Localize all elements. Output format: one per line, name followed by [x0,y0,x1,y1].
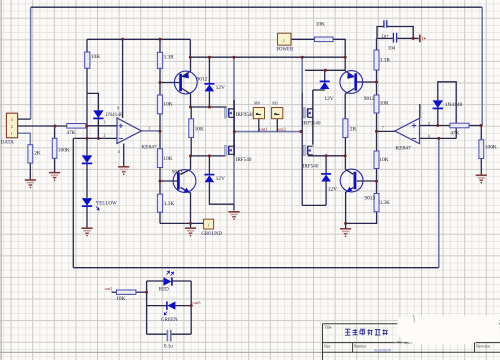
wire op-amp U1 pin2 input [73,137,117,139]
wire left center rail [233,57,235,205]
svg-text:3.3K: 3.3K [379,200,390,206]
diode YELLOW arrows [96,207,99,211]
wire POWER feed [291,38,315,40]
wire pmos gate link y107 [191,106,227,108]
wire left drain rail [233,100,235,156]
wire right center rail upper [301,57,303,93]
svg-text:5: 5 [428,121,430,126]
resistor 100K left [52,138,70,158]
wire 9013 left base [160,180,177,182]
wire 9013 left emitter [181,188,191,224]
zener D3 12V [320,81,334,102]
capacitor 1u+ [381,20,389,39]
ground 9013 right [340,229,351,237]
wire 9013 left collector [181,156,191,175]
svg-text:GREEN: GREEN [161,318,178,323]
zener D2 12V [204,175,225,183]
svg-text:10K: 10K [91,54,100,60]
wire right y90 link [313,89,325,91]
svg-text:1: 1 [11,132,13,136]
svg-text:12V: 12V [216,176,225,182]
wire 9013 right emitter [346,188,354,224]
wire nmos right source run [308,155,345,157]
svg-text:1u+: 1u+ [381,35,389,40]
title text (chinese) [345,329,388,335]
svg-text:IRF9540: IRF9540 [236,112,255,118]
svg-text:10K: 10K [195,127,204,133]
svg-text:0.1u: 0.1u [164,345,173,350]
wire 1N4148 branch [87,93,98,110]
capacitor 104 [388,33,397,52]
ground 2K [25,180,36,188]
wire right ladder seg2 [376,113,378,151]
led GREEN [161,301,178,323]
wire corner x190 to y57 [189,39,191,57]
svg-text:3: 3 [103,120,105,125]
wire 10K power to corner [333,39,345,70]
svg-text:10K: 10K [379,157,388,163]
wire big loop left [72,138,74,267]
svg-text:IRF540: IRF540 [236,157,252,163]
wire out1 resistor stub [112,291,117,293]
wire diode column low [86,206,88,228]
svg-text:100K: 100K [485,145,497,151]
svg-text:1: 1 [207,223,209,227]
diode 1N4148 left [93,110,123,118]
svg-text:2K: 2K [34,151,41,157]
transistor Q2 9013 [172,169,196,192]
wire left ladder seg4 [159,212,161,223]
svg-text:1N4148: 1N4148 [445,102,463,108]
resistor 10K right upper [374,95,389,113]
resistor 47K right [450,123,469,136]
wire M1 stub [276,119,278,132]
svg-text:9012: 9012 [197,77,208,83]
wire upper-left rail y39 [87,38,190,40]
svg-text:GROUND: GROUND [201,232,222,237]
transistor Q3 9012 [340,71,375,102]
svg-text:out1: out1 [259,127,268,132]
resistor 3.3K right [374,194,390,212]
wire nmos left pins rail [233,145,235,155]
resistor 3.3R right [374,50,390,70]
wire 9013 right base [357,180,377,182]
svg-text:2: 2 [103,133,105,138]
svg-text:47K: 47K [450,131,459,137]
wire right gate rail [301,93,303,205]
wire right drain rail [312,90,314,145]
wire 100K left stub bottom [54,158,56,172]
wire M0 stub [258,119,260,132]
wire top rail [31,6,483,8]
wire zener D3 top segment [324,70,326,81]
wire DATA pin3 [18,118,31,120]
wire motor rail [234,131,301,133]
wire big loop bottom [73,267,439,269]
wire out1 resistor to box [136,291,147,293]
svg-text:7: 7 [382,126,384,131]
wire left ladder seg3 [159,168,161,195]
wire op-amp U1 pin8 drop [122,39,124,118]
led RED [159,271,174,292]
capacitor 0.1u [164,330,173,350]
svg-text:3.3R: 3.3R [163,55,174,61]
svg-text:YELLOW: YELLOW [96,202,117,207]
wire op-amp U2 output [377,130,395,132]
wire left ladder seg2 [159,114,161,149]
svg-text:10K: 10K [380,101,389,107]
resistor 2R [343,119,357,138]
resistor 10K left ladder lower [157,149,172,168]
svg-text:Number: Number [354,345,367,349]
wire diode column mid [86,164,88,198]
svg-text:9012: 9012 [364,96,375,102]
svg-text:12V: 12V [324,96,333,102]
wire left ladder seg1 [159,68,161,95]
wire zener D2 lower segment [209,182,234,204]
wire led box bottom edge [147,333,192,335]
svg-text:out3: out3 [192,300,201,305]
svg-text:3.3K: 3.3K [164,201,175,207]
wire big loop right [438,138,440,267]
svg-text:IRF9540: IRF9540 [302,121,321,127]
connector GROUND [201,219,222,237]
connector M0 [253,101,264,119]
wire led box mid [147,305,192,307]
ground 100K right [476,175,487,183]
svg-text:1N4148: 1N4148 [105,112,123,118]
svg-text:B-4535678: B-4535678 [374,349,390,353]
svg-text:DATA: DATA [1,141,14,146]
wire op-amp U2 pin8 stub [419,104,421,118]
wire 9012 right collector [345,71,354,77]
wire right bottom link y205 [302,204,326,206]
svg-text:3: 3 [11,118,13,122]
wire 1N4148 branch lower [97,118,99,138]
wire nmos gate link y156 [191,155,226,157]
wire 100K right stub bottom [480,159,482,175]
wire DATA pin1 [18,133,31,144]
op-amp U2 KE847 [382,118,430,151]
svg-text:12V: 12V [328,187,337,193]
svg-text:out2: out2 [278,127,287,132]
connector M1 [272,101,283,119]
svg-text:IRF540: IRF540 [303,163,319,169]
svg-text:1: 1 [149,126,151,131]
connector DATA [1,113,18,145]
svg-text:M1: M1 [272,101,278,106]
resistor 10K left ladder upper [157,95,172,114]
wire 10K mid stub bottom [190,138,192,156]
mosfet IRF9540 right [302,108,321,127]
wire cap branch bottom [377,37,419,39]
svg-text:10K: 10K [163,156,172,162]
svg-text:10K: 10K [116,296,125,302]
wire right ladder seg1 [376,70,378,95]
svg-text:1: 1 [283,39,285,43]
title block [323,324,500,360]
wire 47K right to loop [469,125,482,127]
ground 9013 left [185,228,196,236]
resistor 47K left [66,124,85,137]
wire 3.3R drop [159,39,161,52]
ground op-amp U1 [118,167,129,175]
resistor 10K top-left [85,52,100,68]
svg-text:104: 104 [388,46,396,51]
ground 100K left [49,173,60,181]
svg-text:2: 2 [11,125,13,129]
wire 9012 right base [357,81,376,83]
svg-text:KE847: KE847 [141,145,157,151]
zener D1 12V [204,84,225,92]
mosfet IRF540 left [225,145,252,163]
diode YELLOW led [82,198,92,206]
svg-text:2R: 2R [350,127,357,133]
resistor 10K power [315,22,334,42]
wire zener D1 upper segment [208,57,210,84]
wire 9012 left base [160,82,179,84]
svg-text:Size: Size [324,345,331,349]
diode left column mid [82,155,92,163]
wire 2K to ground [29,163,31,180]
connector POWER [276,33,294,52]
svg-text:9013: 9013 [364,196,375,202]
resistor 10K out1 [116,290,136,302]
wire left rail ground stub [233,205,235,211]
wire op-amp U1 pin3 input [86,125,117,127]
wire led box right edge [190,281,192,334]
wire left diode column [86,68,88,155]
wire 100K left stub top [54,126,56,138]
wire zener D2 upper segment [208,156,210,175]
wire pmos left pins rail [233,109,235,117]
wire left ground stub [190,223,192,227]
svg-text:Title: Title [324,325,331,329]
wire op-amp U1 output [141,130,160,132]
wire 9012 left emitter [182,89,191,108]
wire 9012 right emitter [345,89,354,119]
svg-text:12V: 12V [216,85,225,91]
resistor 3.3K left [157,194,174,212]
mosfet IRF540 right [303,145,319,169]
wire right ground run [346,212,377,224]
wire zener D3 bottom segment [324,89,326,91]
svg-text:6: 6 [428,134,430,139]
resistor 2K [28,145,41,163]
svg-text:RED: RED [159,287,169,292]
wire op-amp U1 pin4 drop [123,144,125,167]
wire op-amp U2 pin5 [420,125,451,127]
wire cap branch top [377,27,413,39]
svg-text:M0: M0 [254,101,260,106]
wire right loop vertical (top rail to 47K) [481,7,483,125]
diode 1N4148 right [433,100,463,108]
resistor 10K middle [189,119,204,138]
wire diode D6 lower stub [437,108,439,126]
svg-text:out1: out1 [105,286,114,291]
wire zener D4 bottom segment [325,181,327,205]
resistor 10K right lower [374,151,389,169]
wire right ladder seg0 [376,38,378,50]
transistor Q4 9013 [340,169,375,201]
svg-text:10K: 10K [316,22,325,28]
wire zener D4 top segment [325,156,327,174]
ground diode column [81,228,92,236]
wire left ground run [160,222,204,224]
svg-text:100K: 100K [58,148,70,154]
wire 2R to 9013 collector [345,138,353,175]
ground left rail [228,212,239,220]
svg-text:47K: 47K [66,130,75,136]
resistor 100K right [479,140,497,159]
wire 9012 left collector [182,57,191,76]
svg-text:KE847: KE847 [395,146,411,152]
svg-text:8: 8 [117,105,119,110]
svg-text:9013: 9013 [172,169,183,175]
wire led box left edge [146,281,148,334]
wire feedback loop small box [438,82,456,139]
wire mid rail y57 [190,56,345,58]
wire right ladder seg3 [376,169,378,194]
wire 10K mid stub top [190,107,192,119]
white blob [395,315,500,344]
wire right ground stub [345,223,347,228]
wire left feed vertical (DATA pin3 to top rail) [30,7,32,119]
svg-text:3.3R: 3.3R [380,58,391,64]
wire right y70 link [305,69,345,71]
wire op-amp U2 pin6 [420,137,457,139]
wire DATA pin2 net [18,125,67,127]
transistor Q1 9012 [174,71,207,94]
resistor 3.3R left [157,52,174,68]
zener D4 12V [321,174,337,193]
svg-text:10K: 10K [163,102,172,108]
wire 100K right stub top [480,126,482,140]
power bar symbol [420,35,426,43]
svg-text:POWER: POWER [276,48,294,53]
wire zener D1 lower segment [208,92,210,107]
op-amp U1 KE847 [103,105,157,154]
mosfet IRF9540 left [225,108,255,119]
wire 10K left drop [86,39,88,52]
wire led box top edge [147,280,192,282]
svg-text:Revision: Revision [476,345,490,349]
